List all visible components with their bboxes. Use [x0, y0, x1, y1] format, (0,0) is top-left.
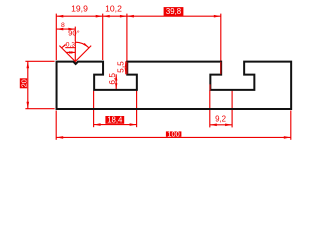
svg-text:20: 20: [19, 79, 28, 87]
svg-text:8: 8: [61, 22, 65, 29]
svg-text:9,2: 9,2: [215, 115, 226, 124]
svg-text:39,8: 39,8: [166, 7, 181, 16]
svg-text:19,9: 19,9: [71, 4, 88, 14]
svg-text:100: 100: [167, 129, 179, 138]
svg-text:0,3: 0,3: [66, 42, 76, 49]
svg-text:6,5: 6,5: [107, 73, 117, 85]
svg-text:10,2: 10,2: [105, 4, 122, 14]
svg-text:90°: 90°: [68, 29, 79, 38]
svg-text:18,4: 18,4: [107, 116, 123, 125]
svg-text:5,5: 5,5: [116, 61, 126, 73]
